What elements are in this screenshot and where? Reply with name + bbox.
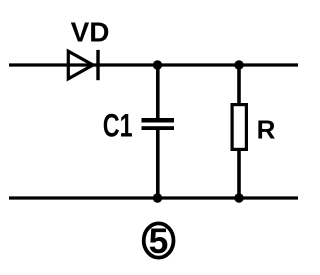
svg-text:C1: C1 <box>103 107 133 143</box>
svg-text:R: R <box>257 115 276 145</box>
svg-text:VD: VD <box>71 16 110 47</box>
svg-text:5: 5 <box>149 221 169 261</box>
